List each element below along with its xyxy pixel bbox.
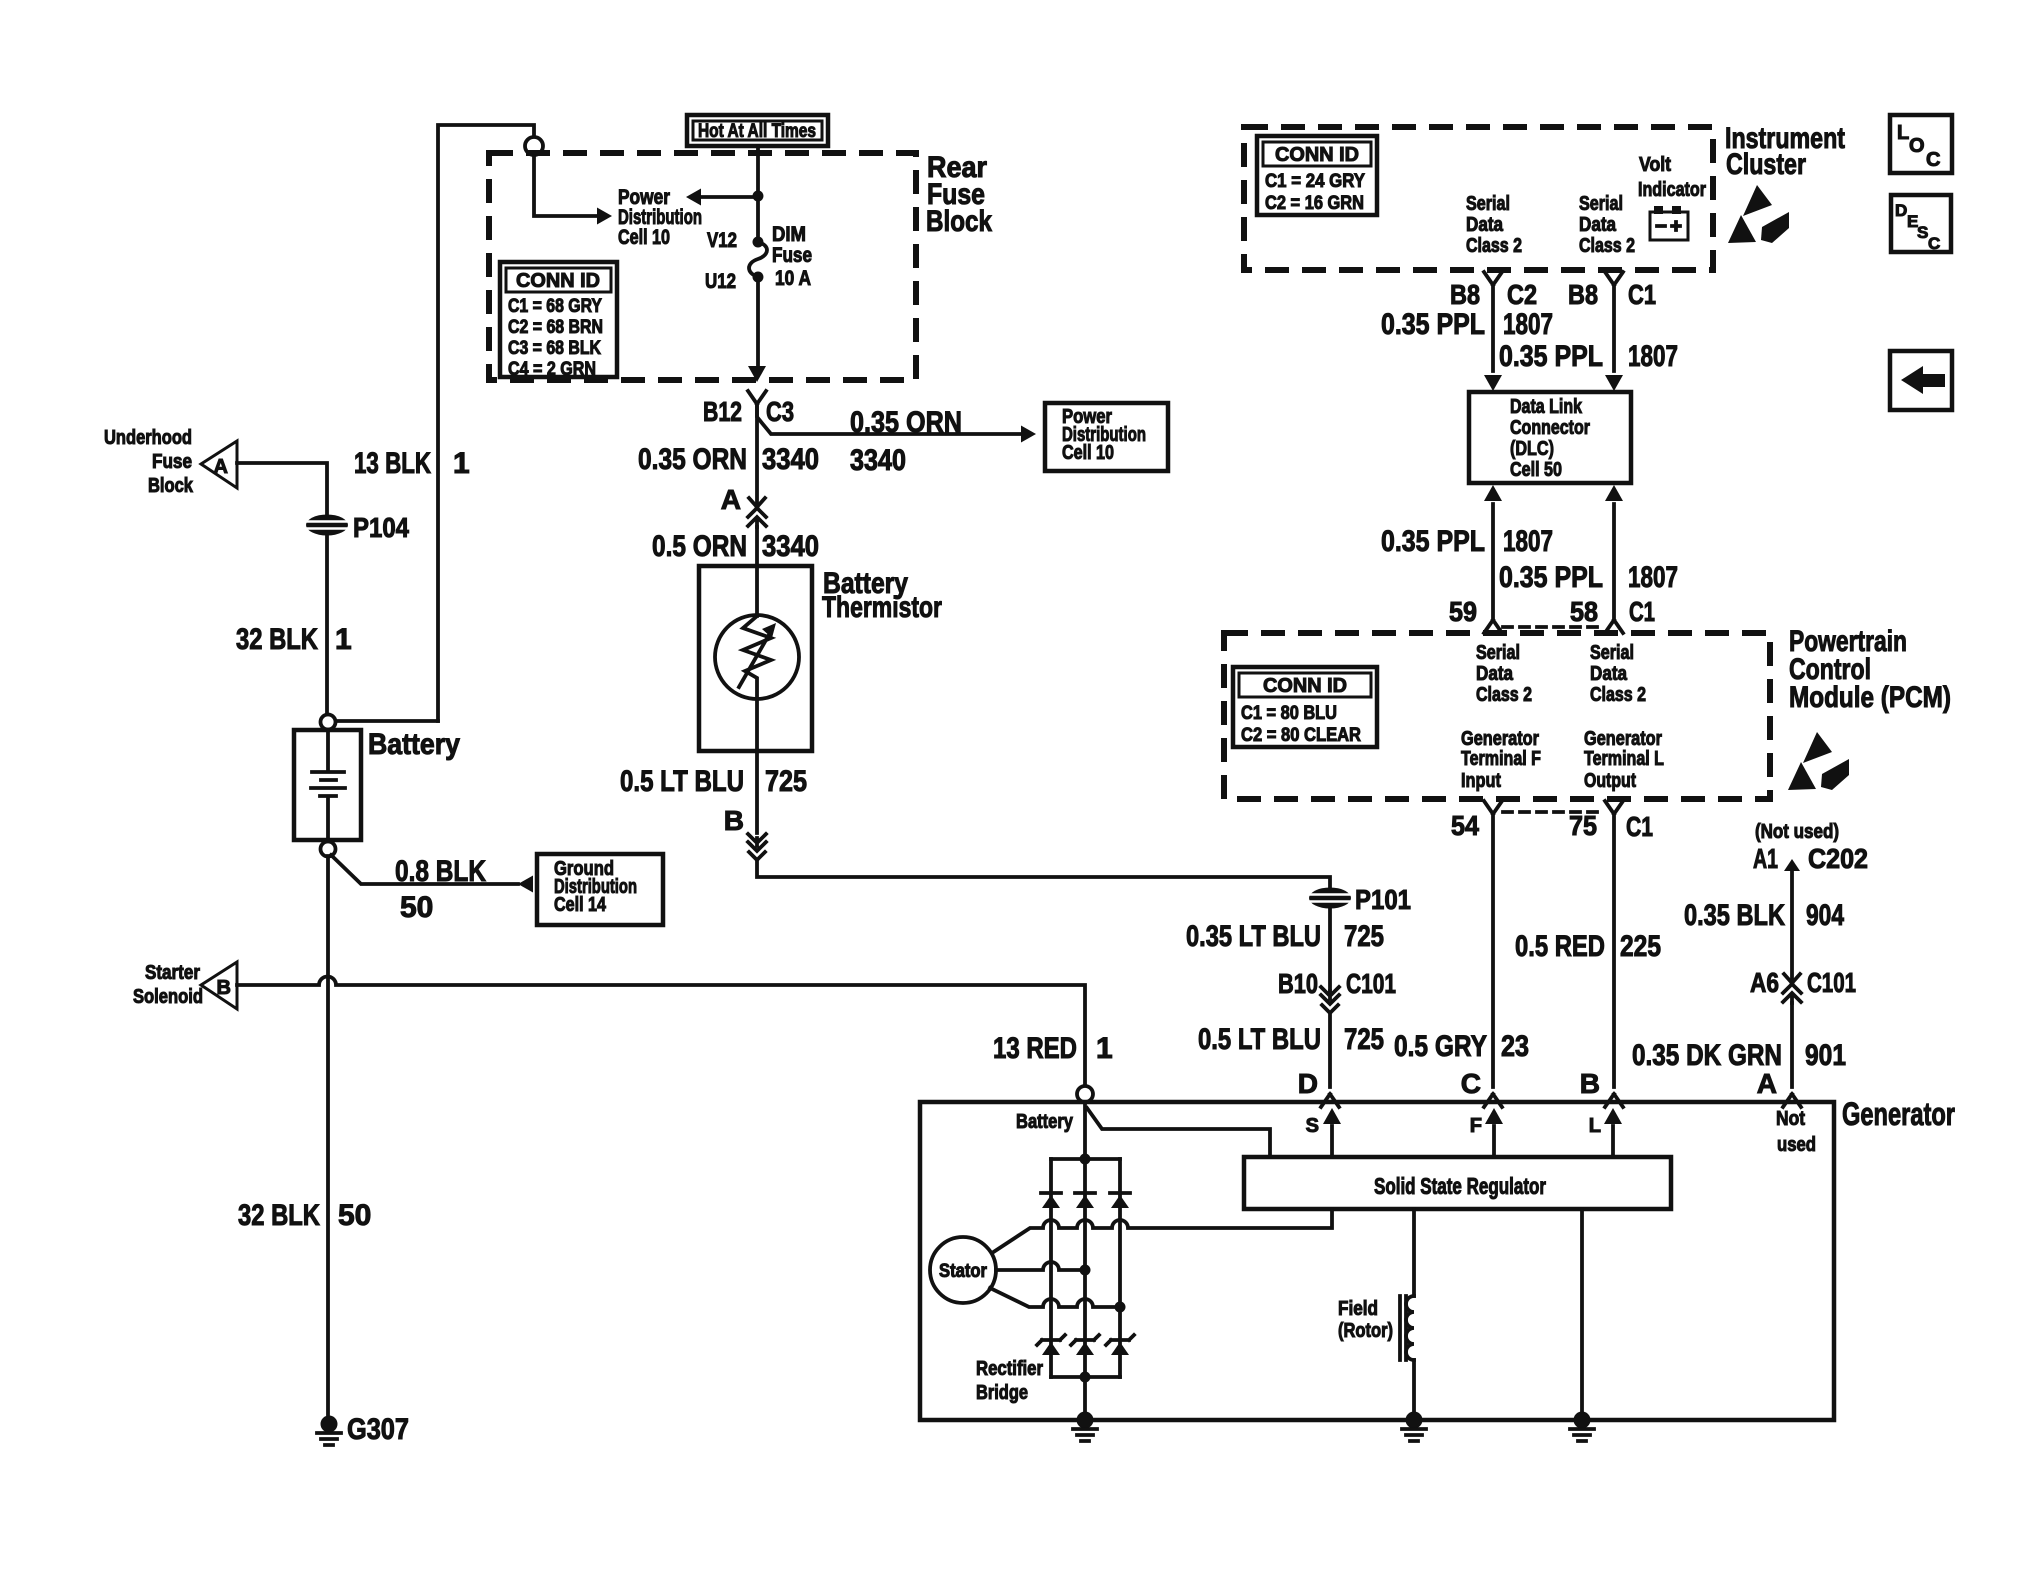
rectifier diode D4	[1037, 1335, 1065, 1355]
cluster pin C1 fork	[1605, 272, 1623, 285]
svg-text:0.5 LT BLU: 0.5 LT BLU	[1198, 1023, 1321, 1056]
Solid State Regulator box	[1244, 1157, 1671, 1209]
wire 0.5 GRY 23 PCM-54 to generator C	[1491, 814, 1495, 1087]
svg-text:C: C	[1461, 1068, 1481, 1099]
svg-text:Serial: Serial	[1579, 193, 1623, 215]
fuse DIM 10A	[753, 237, 764, 248]
svg-text:Solenoid: Solenoid	[133, 986, 203, 1008]
svg-text:C101: C101	[1346, 968, 1396, 999]
branch arrow left to Power Distribution	[700, 195, 758, 199]
svg-text:58: 58	[1570, 596, 1598, 627]
svg-text:0.8 BLK: 0.8 BLK	[395, 855, 486, 888]
svg-text:Class 2: Class 2	[1476, 684, 1532, 706]
svg-text:725: 725	[765, 765, 807, 798]
svg-text:Serial: Serial	[1590, 642, 1634, 664]
svg-text:1807: 1807	[1628, 340, 1678, 373]
svg-text:C1 = 68 GRY: C1 = 68 GRY	[508, 296, 602, 317]
junction node	[753, 191, 764, 202]
LOC box	[1890, 115, 1952, 173]
svg-text:1: 1	[335, 623, 352, 656]
svg-text:0.35 PPL: 0.35 PPL	[1381, 525, 1485, 558]
svg-text:32 BLK: 32 BLK	[236, 623, 318, 656]
svg-text:50: 50	[400, 891, 433, 924]
svg-text:0.35 PPL: 0.35 PPL	[1499, 561, 1603, 594]
svg-text:Thermistor: Thermistor	[822, 591, 942, 624]
svg-text:Serial: Serial	[1466, 193, 1510, 215]
rectifier bridge rails	[1051, 1159, 1120, 1377]
battery bottom node	[321, 842, 336, 857]
svg-text:Serial: Serial	[1476, 642, 1520, 664]
wire 0.35 PPL 1807 cluster-left to DLC	[1491, 285, 1495, 371]
svg-text:Starter: Starter	[145, 962, 200, 984]
svg-text:C4 = 2 GRN: C4 = 2 GRN	[508, 359, 596, 380]
generator D pin fork	[1321, 1094, 1339, 1107]
connector B12 C3 fork	[748, 391, 766, 404]
svg-text:59: 59	[1449, 596, 1477, 627]
svg-text:L: L	[1589, 1115, 1601, 1137]
svg-text:Class 2: Class 2	[1590, 684, 1646, 706]
svg-text:1: 1	[453, 447, 470, 480]
PCM connector pin link dashes (bottom)	[1503, 810, 1604, 814]
wire battery terminal into rectifier	[1083, 1102, 1087, 1159]
svg-text:used: used	[1777, 1134, 1816, 1156]
rear fuse block dashed box	[489, 153, 916, 380]
stator phase 3 wire	[990, 1288, 1120, 1307]
regulator to ground wire	[1580, 1209, 1584, 1420]
Battery Thermistor box	[699, 566, 812, 751]
svg-text:C3: C3	[766, 396, 794, 427]
svg-text:(Not used): (Not used)	[1755, 821, 1839, 843]
ground rectifier	[1073, 1412, 1097, 1442]
svg-text:Fuse: Fuse	[152, 451, 192, 473]
svg-text:C2 = 68 BRN: C2 = 68 BRN	[508, 317, 603, 338]
CONN ID table instrument cluster	[1257, 136, 1377, 215]
svg-text:0.35 ORN: 0.35 ORN	[850, 406, 962, 439]
svg-text:V12: V12	[707, 229, 737, 252]
svg-text:Cell 14: Cell 14	[554, 894, 607, 916]
svg-text:B8: B8	[1450, 279, 1480, 310]
wire 13 BLK 1 vertical loop from rear fuse block to battery	[438, 125, 534, 721]
L pin arrow	[1611, 1126, 1615, 1157]
svg-text:Cluster: Cluster	[1726, 148, 1806, 181]
field rotor coil	[1412, 1209, 1416, 1296]
svg-text:S: S	[1306, 1115, 1319, 1137]
svg-text:225: 225	[1620, 930, 1661, 963]
ESD symbol instrument cluster	[1728, 185, 1789, 243]
svg-text:Hot At All Times: Hot At All Times	[698, 121, 816, 142]
svg-text:D: D	[1298, 1068, 1318, 1099]
svg-text:Rectifier: Rectifier	[976, 1358, 1043, 1380]
svg-text:C: C	[1926, 149, 1940, 171]
svg-text:Data: Data	[1590, 663, 1628, 685]
svg-text:Solid State Regulator: Solid State Regulator	[1374, 1173, 1546, 1199]
svg-text:G307: G307	[347, 1413, 409, 1446]
svg-text:Cell 50: Cell 50	[1510, 459, 1562, 481]
svg-text:Connector: Connector	[1510, 417, 1590, 439]
svg-text:C1: C1	[1629, 596, 1655, 627]
svg-text:Data Link: Data Link	[1510, 396, 1583, 418]
splice P104	[306, 515, 348, 536]
svg-text:0.5 GRY: 0.5 GRY	[1394, 1030, 1487, 1063]
CONN ID table PCM	[1233, 667, 1377, 747]
svg-text:Block: Block	[926, 205, 992, 238]
rectifier columns	[1051, 1159, 1120, 1377]
PCM dashed box	[1224, 633, 1770, 799]
svg-text:Output: Output	[1584, 770, 1636, 792]
svg-text:C2: C2	[1507, 279, 1537, 310]
svg-text:1: 1	[1096, 1032, 1113, 1065]
svg-text:C101: C101	[1807, 967, 1856, 998]
svg-text:Battery: Battery	[1016, 1111, 1074, 1133]
svg-text:3340: 3340	[850, 444, 906, 477]
svg-text:Not: Not	[1776, 1108, 1805, 1130]
svg-text:725: 725	[1344, 1023, 1384, 1056]
svg-text:0.35 ORN: 0.35 ORN	[638, 443, 747, 476]
wire 32 BLK 1	[325, 536, 329, 714]
wire 0.35 PPL 1807 cluster-right to DLC	[1612, 285, 1616, 371]
internal wire battery to regulator	[1087, 1108, 1270, 1155]
Ground Distribution Cell 14 box	[537, 854, 663, 925]
F pin arrow	[1492, 1126, 1496, 1157]
rectifier diode D6	[1106, 1335, 1134, 1355]
svg-text:Terminal F: Terminal F	[1461, 748, 1541, 770]
svg-text:13 RED: 13 RED	[993, 1032, 1077, 1065]
stator phase 2 wire	[996, 1262, 1085, 1270]
svg-text:13 BLK: 13 BLK	[354, 447, 431, 480]
Data Link Connector (DLC) box	[1469, 392, 1631, 483]
svg-text:C2 = 80 CLEAR: C2 = 80 CLEAR	[1241, 725, 1361, 746]
svg-text:B: B	[724, 805, 744, 836]
wire and branch 0.35 ORN 3340 to Power Distribution Cell 10	[757, 404, 1022, 434]
svg-text:(DLC): (DLC)	[1510, 438, 1554, 460]
svg-text:C2 = 16 GRN: C2 = 16 GRN	[1265, 193, 1364, 214]
wire from Hot At All Times down to fuse	[756, 146, 760, 242]
svg-text:23: 23	[1501, 1030, 1529, 1063]
svg-text:0.35 BLK: 0.35 BLK	[1684, 899, 1785, 932]
svg-text:3340: 3340	[762, 530, 819, 563]
wire fuse to B12	[756, 277, 760, 369]
wires DLC to PCM	[1484, 485, 1502, 501]
svg-text:C: C	[1928, 234, 1940, 253]
svg-text:0.5 ORN: 0.5 ORN	[652, 530, 747, 563]
Hot At All Times box	[687, 115, 828, 146]
svg-text:C1: C1	[1626, 811, 1653, 842]
battery box	[294, 730, 361, 840]
stator circle	[930, 1237, 996, 1303]
PCM pin 75 fork	[1605, 801, 1623, 814]
svg-text:A: A	[721, 484, 741, 515]
svg-text:S: S	[1917, 223, 1928, 242]
thermistor circle + element	[715, 615, 799, 699]
volt indicator battery icon	[1654, 206, 1663, 214]
connector B (C100)	[748, 834, 766, 860]
rectifier diode D3	[1110, 1193, 1130, 1208]
svg-text:Generator: Generator	[1842, 1096, 1955, 1132]
rectifier to generator case ground	[1083, 1377, 1087, 1420]
battery top node	[321, 715, 336, 730]
svg-text:Data: Data	[1466, 214, 1504, 236]
svg-text:75: 75	[1569, 810, 1597, 841]
wire 0.5 RED 225 PCM-75 to generator B	[1612, 814, 1616, 1087]
ESD symbol PCM	[1788, 732, 1849, 790]
svg-text:C1: C1	[1628, 279, 1656, 310]
wire 0.35 ORN 3340 down	[755, 404, 759, 506]
svg-text:1807: 1807	[1503, 308, 1553, 341]
svg-text:Field: Field	[1338, 1298, 1378, 1320]
svg-text:Class 2: Class 2	[1579, 235, 1635, 257]
Generator box	[920, 1102, 1834, 1420]
svg-text:0.35 LT BLU: 0.35 LT BLU	[1186, 920, 1321, 953]
svg-text:Battery: Battery	[368, 728, 460, 761]
svg-text:CONN ID: CONN ID	[516, 270, 600, 292]
svg-text:Cell 10: Cell 10	[618, 226, 670, 249]
svg-text:Class 2: Class 2	[1466, 235, 1522, 257]
ground G307	[317, 1416, 341, 1446]
ground regulator	[1570, 1412, 1594, 1442]
svg-text:Stator: Stator	[939, 1261, 988, 1282]
svg-text:B10: B10	[1278, 968, 1318, 999]
svg-text:A: A	[214, 456, 228, 478]
svg-text:F: F	[1470, 1115, 1482, 1137]
svg-text:Data: Data	[1476, 663, 1514, 685]
svg-text:DIM: DIM	[772, 223, 806, 246]
svg-text:3340: 3340	[762, 443, 819, 476]
svg-text:D: D	[1895, 201, 1907, 220]
svg-text:Terminal L: Terminal L	[1584, 748, 1664, 770]
Underhood Fuse Block connector triangle A	[201, 441, 237, 488]
node circle on rear fuse block edge	[525, 137, 543, 155]
Starter Solenoid connector triangle B	[201, 962, 237, 1009]
svg-text:Module (PCM): Module (PCM)	[1789, 681, 1951, 714]
svg-text:C1 = 80 BLU: C1 = 80 BLU	[1241, 703, 1337, 724]
ground field	[1402, 1412, 1426, 1442]
svg-text:32 BLK: 32 BLK	[238, 1199, 320, 1232]
svg-text:0.35 PPL: 0.35 PPL	[1499, 340, 1603, 373]
S pin arrow	[1330, 1126, 1334, 1157]
svg-text:Block: Block	[148, 475, 194, 497]
wire 0.8 BLK 50 to ground distribution	[331, 855, 518, 884]
svg-text:Bridge: Bridge	[976, 1382, 1028, 1404]
svg-text:Generator: Generator	[1584, 728, 1662, 750]
svg-text:Data: Data	[1579, 214, 1617, 236]
PCM pin 54 fork	[1484, 801, 1502, 814]
svg-text:0.5 LT BLU: 0.5 LT BLU	[620, 765, 744, 798]
rectifier diode D1	[1041, 1193, 1061, 1208]
battery cell symbol	[311, 730, 345, 840]
svg-text:1807: 1807	[1503, 525, 1553, 558]
rectifier diode D2	[1075, 1193, 1095, 1208]
svg-text:A: A	[1757, 1068, 1777, 1099]
rectifier diode D5	[1071, 1335, 1099, 1355]
wire battery top to 13 BLK vertical	[336, 719, 438, 723]
svg-text:B8: B8	[1568, 279, 1598, 310]
svg-text:L: L	[1897, 122, 1909, 144]
svg-text:901: 901	[1805, 1039, 1846, 1072]
cluster pin C2 fork	[1484, 272, 1502, 285]
svg-text:50: 50	[338, 1199, 371, 1232]
wire 32 BLK 50 battery to G307	[326, 856, 330, 1418]
Power Distribution Cell 10 box	[1045, 403, 1168, 471]
svg-text:Indicator: Indicator	[1638, 179, 1706, 201]
svg-text:CONN ID: CONN ID	[1263, 675, 1347, 697]
svg-text:CONN ID: CONN ID	[1275, 144, 1359, 166]
svg-text:Underhood: Underhood	[104, 427, 192, 449]
svg-text:0.35 PPL: 0.35 PPL	[1381, 308, 1485, 341]
svg-text:A1: A1	[1753, 843, 1778, 874]
svg-text:904: 904	[1806, 899, 1844, 932]
svg-text:Volt: Volt	[1639, 154, 1671, 176]
svg-text:O: O	[1909, 135, 1925, 157]
svg-text:U12: U12	[705, 270, 736, 293]
svg-text:725: 725	[1344, 920, 1384, 953]
svg-text:1807: 1807	[1628, 561, 1678, 594]
svg-text:A6: A6	[1750, 967, 1779, 998]
svg-text:(Rotor): (Rotor)	[1338, 1320, 1393, 1342]
svg-text:Fuse: Fuse	[772, 244, 812, 267]
svg-text:Cell 10: Cell 10	[1062, 442, 1114, 464]
arrow from node circle down-right to Power Distribution	[534, 156, 596, 216]
svg-text:Generator: Generator	[1461, 728, 1539, 750]
splice P101	[1309, 888, 1351, 909]
CONN ID table rear fuse block	[500, 262, 617, 377]
svg-text:Input: Input	[1461, 770, 1501, 792]
svg-text:C202: C202	[1808, 843, 1868, 874]
back-arrow box	[1890, 351, 1952, 410]
svg-text:P101: P101	[1355, 884, 1411, 915]
svg-text:B12: B12	[703, 396, 742, 427]
wire starter solenoid to generator battery terminal (13 RED 1)	[237, 977, 1085, 1086]
DESC box	[1891, 195, 1951, 252]
svg-text:C1 = 24 GRY: C1 = 24 GRY	[1265, 171, 1365, 192]
wire 0.5 LT BLU 725 below thermistor	[755, 751, 759, 833]
wire from B to P101 and down to generator S (D pin)	[757, 860, 1330, 991]
svg-text:C3 = 68 BLK: C3 = 68 BLK	[508, 338, 601, 359]
instrument cluster dashed box	[1244, 127, 1713, 270]
svg-text:B: B	[1580, 1068, 1600, 1099]
svg-text:10 A: 10 A	[775, 267, 811, 290]
PCM connector pin link dashes (top)	[1503, 625, 1604, 629]
svg-text:B: B	[217, 977, 231, 999]
battery terminal node	[1077, 1086, 1093, 1102]
stator phase 1 wire to regulator	[992, 1209, 1332, 1253]
svg-text:P104: P104	[353, 512, 409, 543]
svg-text:54: 54	[1451, 810, 1479, 841]
wire underhood fuse block to P104	[237, 463, 327, 514]
svg-text:0.5 RED: 0.5 RED	[1515, 930, 1605, 963]
